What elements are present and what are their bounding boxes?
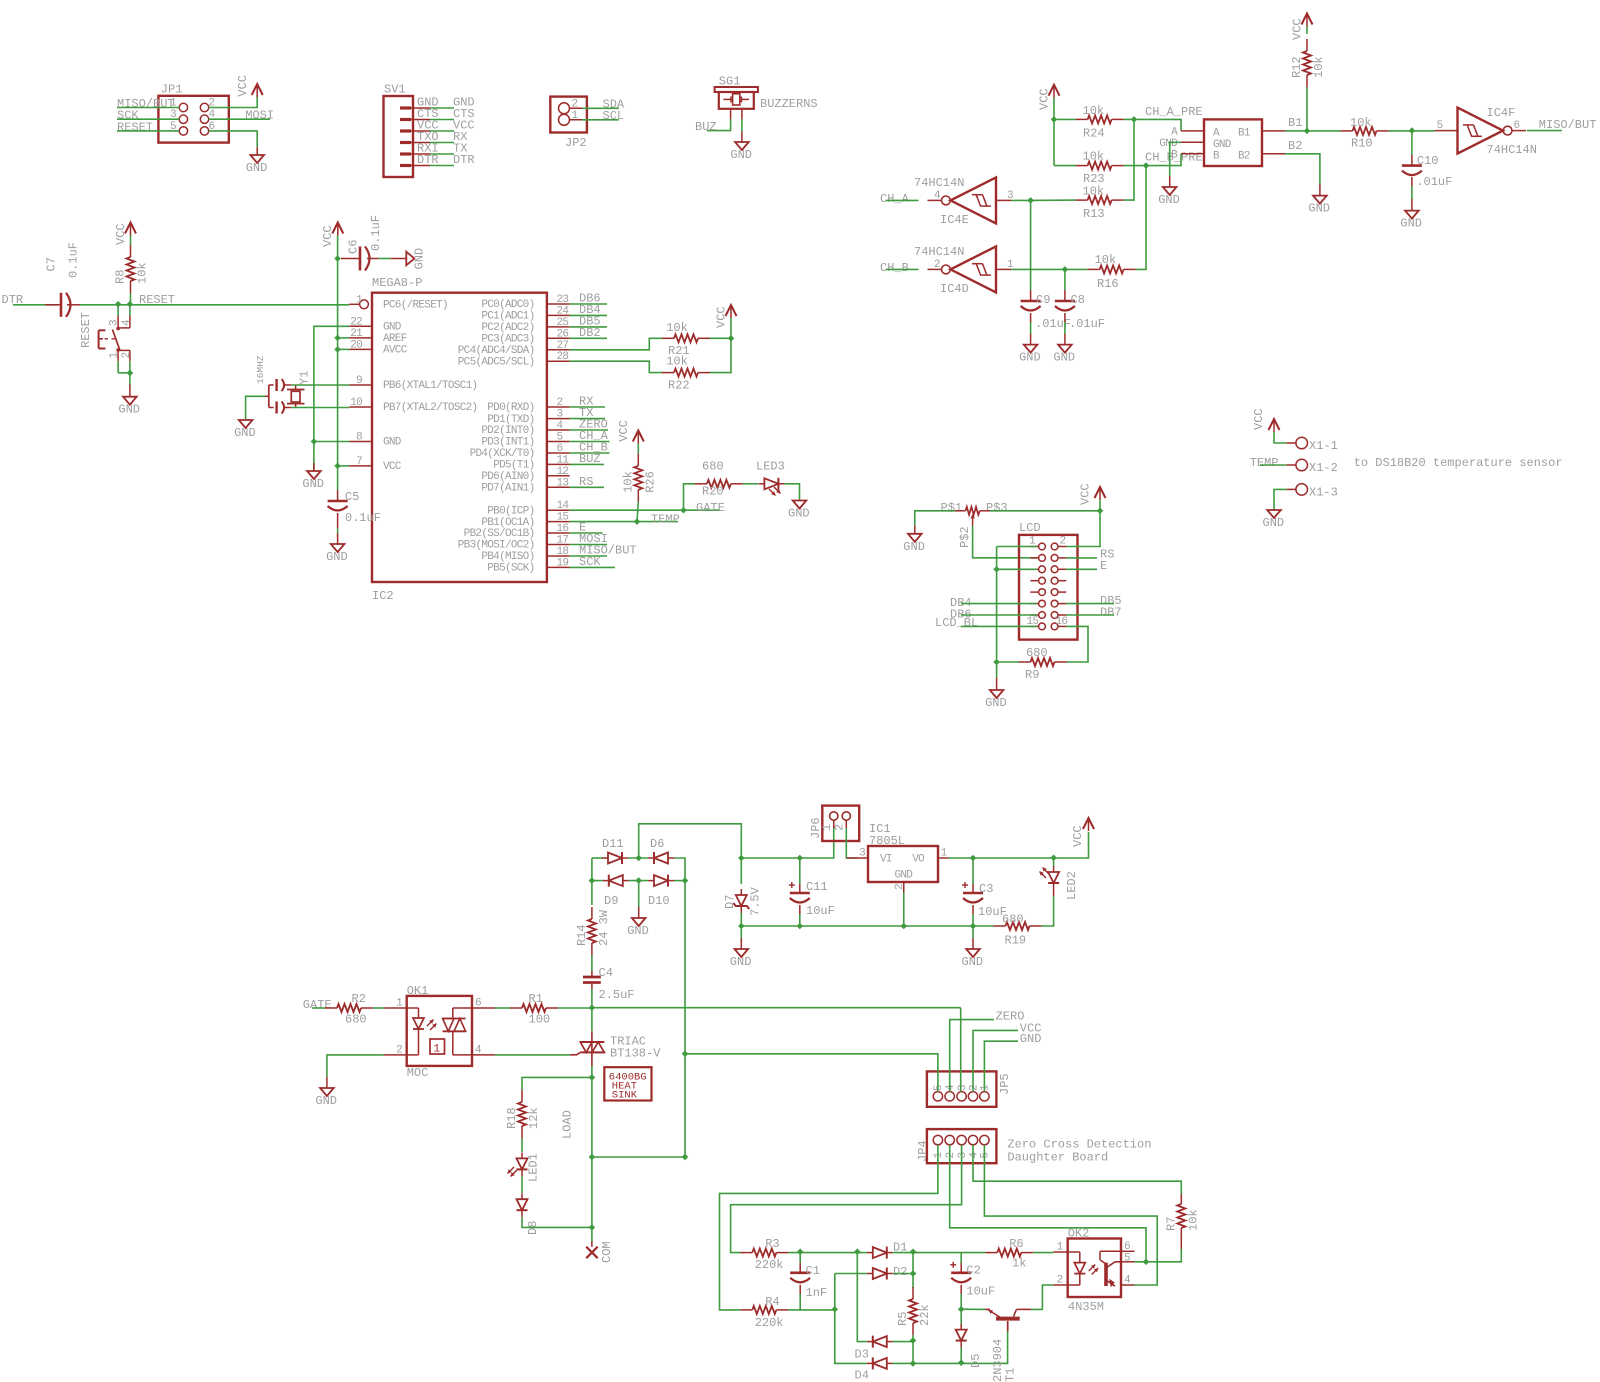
net label RX — [579, 395, 593, 409]
svg-text:2: 2 — [557, 397, 563, 409]
svg-text:PB6(XTAL1/TOSC1): PB6(XTAL1/TOSC1) — [383, 380, 477, 392]
connector pin X1-1 — [1287, 437, 1338, 453]
wire DB6 — [961, 614, 1037, 616]
net label E — [1100, 559, 1107, 573]
wire — [799, 914, 801, 926]
ground — [118, 397, 140, 417]
wire — [960, 1309, 962, 1323]
svg-text:5: 5 — [933, 1084, 945, 1091]
capacitor C5 — [328, 490, 381, 525]
wire — [1064, 322, 1066, 334]
wire — [337, 528, 339, 533]
svg-text:IC4F: IC4F — [1487, 106, 1516, 120]
svg-text:4N35M: 4N35M — [1068, 1300, 1104, 1314]
wire — [799, 1253, 801, 1263]
connector JP1 — [158, 83, 228, 143]
svg-text:R3: R3 — [765, 1237, 779, 1251]
svg-text:C9: C9 — [1036, 293, 1050, 307]
svg-text:24 3W: 24 3W — [597, 909, 611, 946]
wire TX — [430, 153, 454, 155]
lead — [246, 396, 269, 420]
wire DB2 — [570, 337, 607, 339]
net label TEMP — [1250, 456, 1279, 470]
wire — [1136, 166, 1146, 270]
wire — [784, 484, 799, 500]
svg-text:23: 23 — [557, 294, 569, 306]
junction — [311, 438, 318, 445]
ground — [315, 1088, 337, 1108]
lead — [129, 385, 131, 397]
wire VCC — [209, 97, 258, 108]
wire — [591, 955, 593, 971]
svg-text:DB7: DB7 — [1100, 606, 1122, 620]
svg-text:PC3(ADC3): PC3(ADC3) — [481, 334, 534, 346]
wire — [741, 119, 743, 131]
wire — [1411, 186, 1413, 199]
wire — [990, 510, 1100, 512]
svg-text:680: 680 — [1026, 646, 1048, 660]
junction — [993, 659, 1000, 666]
ground — [903, 534, 925, 554]
svg-text:C4: C4 — [599, 966, 613, 980]
wire SCK — [117, 118, 179, 120]
svg-text:10k: 10k — [621, 471, 635, 493]
wire — [1011, 199, 1031, 201]
lead — [972, 884, 974, 914]
net label DB4 — [579, 303, 601, 317]
wire CH_A — [570, 441, 610, 443]
svg-text:PB2(SS/OC1B): PB2(SS/OC1B) — [464, 528, 535, 540]
wire CH_A — [886, 199, 919, 201]
junction — [334, 335, 341, 342]
LED LED2 — [1040, 866, 1080, 900]
wire — [984, 1145, 1157, 1285]
svg-text:R10: R10 — [1351, 136, 1373, 150]
net label ZERO — [579, 418, 608, 432]
svg-text:P$3: P$3 — [986, 501, 1008, 515]
svg-text:GND: GND — [1020, 1032, 1042, 1046]
svg-text:220k: 220k — [755, 1258, 784, 1272]
wire DB4 — [570, 314, 607, 316]
svg-text:10k: 10k — [1095, 253, 1117, 267]
wire MOSI — [570, 544, 607, 546]
svg-text:PC5(ADC5/SCL): PC5(ADC5/SCL) — [458, 356, 535, 368]
svg-text:PC0(ADC0): PC0(ADC0) — [481, 299, 534, 311]
junction — [127, 301, 134, 308]
resistor R2 — [325, 992, 373, 1026]
wire — [972, 926, 974, 938]
wire — [834, 1274, 836, 1310]
IC2 pin names — [383, 299, 535, 574]
optocoupler OK1 — [384, 984, 495, 1080]
svg-text:25: 25 — [557, 317, 569, 329]
wire — [720, 1145, 938, 1310]
svg-text:TEMP: TEMP — [1250, 456, 1279, 470]
wire — [1146, 154, 1181, 166]
wire — [1042, 896, 1054, 926]
wire — [996, 662, 998, 678]
svg-text:2: 2 — [396, 1044, 402, 1056]
ground — [1308, 196, 1330, 216]
svg-text:LOAD: LOAD — [561, 1110, 575, 1139]
svg-text:1: 1 — [434, 1044, 441, 1056]
svg-text:R4: R4 — [765, 1295, 779, 1309]
wire VCC — [1099, 500, 1101, 511]
junction — [589, 1224, 596, 1231]
power VCC — [1291, 14, 1313, 41]
junction — [334, 346, 341, 353]
svg-text:MEGA8-P: MEGA8-P — [372, 276, 422, 290]
svg-text:R8: R8 — [114, 270, 128, 284]
ground — [962, 949, 984, 969]
wire GATE — [570, 509, 720, 511]
lead — [326, 1077, 328, 1088]
svg-text:220k: 220k — [755, 1316, 784, 1330]
net label E — [579, 521, 586, 535]
svg-text:0.1uF: 0.1uF — [67, 242, 81, 278]
junction — [832, 1306, 839, 1313]
lead — [341, 258, 378, 260]
wire RESET — [117, 130, 179, 132]
svg-text:X1-1: X1-1 — [1309, 439, 1338, 453]
ground — [1400, 211, 1422, 231]
svg-text:16: 16 — [1056, 616, 1068, 628]
encoder pin labels — [1159, 116, 1302, 161]
transistor T1 2N3904 — [985, 1309, 1031, 1382]
svg-text:74HC14N: 74HC14N — [1487, 143, 1537, 157]
svg-text:D3: D3 — [855, 1348, 869, 1362]
svg-text:R7: R7 — [1164, 1217, 1178, 1231]
svg-text:C1: C1 — [806, 1264, 820, 1278]
svg-text:13: 13 — [557, 477, 569, 489]
capacitor C7 — [45, 242, 81, 317]
wire — [799, 1294, 801, 1310]
lead — [799, 500, 801, 501]
svg-text:PC1(ADC1): PC1(ADC1) — [481, 311, 534, 323]
note text — [1354, 456, 1563, 470]
wire E — [570, 532, 603, 534]
ground — [1053, 345, 1075, 365]
wire DTR — [13, 304, 58, 306]
svg-text:GND: GND — [895, 870, 914, 882]
svg-text:B1: B1 — [1288, 116, 1302, 130]
svg-text:1nF: 1nF — [806, 1286, 828, 1300]
junction — [797, 1249, 804, 1256]
svg-text:R1: R1 — [529, 992, 543, 1006]
svg-text:GND: GND — [1213, 139, 1232, 151]
lead — [1180, 1238, 1182, 1249]
ground — [1158, 187, 1180, 207]
resistor R3 — [740, 1237, 788, 1272]
wire MOSI — [209, 118, 270, 120]
net label RX — [453, 130, 467, 144]
wire B2 — [1286, 154, 1320, 184]
wire — [1033, 1252, 1053, 1254]
junction — [1131, 116, 1138, 123]
svg-text:11: 11 — [557, 454, 570, 466]
svg-text:12: 12 — [557, 466, 569, 478]
junction — [635, 877, 642, 884]
resistor R5 — [896, 1287, 932, 1335]
junction — [1409, 127, 1416, 134]
wire VCC — [337, 236, 339, 466]
wire — [591, 1227, 593, 1241]
switch S1 — [79, 305, 133, 373]
svg-text:10k: 10k — [1312, 56, 1326, 78]
net label VCC — [453, 119, 475, 133]
wire — [740, 858, 742, 884]
svg-text:D4: D4 — [855, 1369, 869, 1382]
junction — [1062, 266, 1069, 273]
net label LCD_BL — [935, 616, 978, 630]
resistor R14 — [575, 907, 611, 955]
power VCC — [1079, 483, 1106, 505]
connector JP5 — [927, 1071, 1012, 1106]
junction — [910, 1337, 917, 1344]
wire CH_B_PRE — [1124, 165, 1146, 167]
net label RS — [1100, 548, 1114, 562]
wire — [130, 236, 132, 246]
wire — [591, 858, 593, 881]
resistor R9 — [1019, 646, 1067, 682]
wire P$2 — [973, 526, 1037, 558]
svg-text:OK1: OK1 — [407, 984, 429, 998]
wire — [1306, 87, 1308, 131]
wire — [857, 1252, 867, 1254]
svg-text:0.1uF: 0.1uF — [369, 215, 383, 251]
wire — [912, 1342, 914, 1364]
JP5 pin numbers — [933, 1084, 992, 1091]
wire — [710, 337, 731, 339]
wire GND — [314, 326, 349, 441]
lead — [337, 490, 339, 528]
wire VCC — [637, 444, 639, 454]
wire — [522, 1217, 592, 1227]
svg-text:4: 4 — [945, 1084, 957, 1091]
svg-text:COM: COM — [600, 1241, 614, 1263]
wire — [1064, 269, 1066, 290]
trimpot contrast — [941, 501, 1008, 548]
wire AVCC — [338, 348, 350, 350]
svg-text:PD5(T1): PD5(T1) — [493, 460, 534, 472]
svg-text:GND: GND — [627, 924, 649, 938]
wire TX — [570, 418, 605, 420]
svg-text:JP2: JP2 — [565, 136, 587, 150]
resistor R4 — [740, 1295, 788, 1330]
net label DB6 — [950, 608, 972, 622]
diode D5 — [956, 1324, 983, 1368]
heat sink note — [604, 1067, 651, 1101]
resistor R20 — [695, 460, 743, 499]
net label CH_A — [579, 429, 609, 443]
svg-text:10k: 10k — [136, 262, 150, 284]
ground — [406, 248, 426, 270]
svg-text:1: 1 — [933, 1152, 945, 1159]
diode D7 — [723, 886, 763, 916]
junction — [993, 566, 1000, 573]
svg-text:6: 6 — [1124, 1241, 1130, 1253]
resistor R21 — [662, 321, 710, 358]
svg-text:GND: GND — [302, 477, 324, 491]
wire SDA — [570, 338, 663, 350]
wire CTS — [430, 119, 454, 121]
svg-text:R2: R2 — [352, 992, 366, 1006]
power VCC — [114, 223, 136, 246]
wire — [997, 546, 1037, 548]
svg-text:PD3(INT1): PD3(INT1) — [481, 437, 534, 449]
svg-text:680: 680 — [1002, 913, 1024, 927]
wire — [731, 1145, 962, 1253]
svg-text:8: 8 — [356, 432, 362, 444]
junction — [1143, 162, 1150, 169]
svg-text:PD2(INT0): PD2(INT0) — [481, 425, 534, 437]
net label RESET — [139, 293, 175, 307]
svg-text:GND: GND — [730, 955, 752, 969]
wire — [337, 466, 339, 490]
svg-text:GND: GND — [383, 322, 402, 334]
net label MISO/BUT — [117, 97, 175, 111]
wire — [1054, 165, 1076, 167]
wire — [835, 1310, 867, 1364]
JP1 pin numbers — [170, 98, 216, 133]
wire SCL — [570, 361, 663, 372]
wire — [1180, 1192, 1182, 1194]
connector LCD — [1019, 521, 1078, 640]
svg-text:PC2(ADC2): PC2(ADC2) — [481, 322, 534, 334]
net label SDA — [603, 98, 625, 112]
net label DB2 — [579, 326, 601, 340]
connector JP6 — [809, 806, 859, 841]
wire — [628, 857, 648, 859]
svg-text:A: A — [1171, 126, 1178, 138]
svg-text:R5: R5 — [896, 1312, 910, 1326]
svg-text:3: 3 — [957, 1084, 969, 1091]
lead — [256, 147, 258, 155]
svg-text:to DS18B20 temperature sensor: to DS18B20 temperature sensor — [1354, 456, 1563, 470]
power VCC — [715, 305, 737, 328]
resistor R16 — [1088, 253, 1136, 291]
wire — [799, 858, 801, 884]
svg-text:10k: 10k — [1083, 184, 1105, 198]
net label DTR — [2, 293, 24, 307]
junction — [115, 301, 122, 308]
lead — [1169, 176, 1171, 187]
wire CH_B — [886, 268, 919, 270]
lead — [960, 1263, 962, 1294]
svg-text:2: 2 — [945, 1152, 957, 1159]
power VCC — [236, 75, 263, 97]
ground — [730, 949, 752, 969]
svg-text:VO: VO — [912, 854, 925, 866]
wire — [378, 258, 390, 260]
wire — [639, 824, 742, 858]
SV1 pin names — [417, 96, 439, 168]
wire — [972, 914, 974, 926]
junction — [1051, 116, 1058, 123]
wire — [1031, 1285, 1053, 1309]
resistor R26 — [621, 454, 657, 502]
svg-text:GND: GND — [788, 507, 810, 521]
wire RS — [570, 486, 604, 488]
svg-text:LED3: LED3 — [756, 460, 785, 474]
ground — [985, 690, 1007, 710]
wire TEMP — [570, 521, 678, 523]
IC U IC2 MEGA8-P — [349, 276, 569, 603]
svg-text:SCK: SCK — [579, 555, 601, 569]
svg-text:15: 15 — [557, 512, 569, 524]
inverter IC4F 74HC14 — [1435, 106, 1537, 157]
lead — [1411, 154, 1413, 186]
lead — [980, 510, 990, 512]
wire — [741, 857, 800, 859]
svg-text:BUZZERNS: BUZZERNS — [760, 97, 818, 111]
JP4 pin numbers — [933, 1152, 992, 1159]
net label GND — [453, 96, 475, 110]
junction — [1097, 508, 1104, 515]
svg-text:X1-2: X1-2 — [1309, 461, 1338, 475]
lead — [1053, 890, 1055, 896]
wire GND — [314, 442, 349, 471]
lead — [741, 131, 743, 142]
capacitor C3 — [962, 882, 1007, 919]
svg-text:7805L: 7805L — [869, 834, 905, 848]
net label SCK — [579, 555, 601, 569]
wire BUZ — [570, 463, 604, 465]
svg-text:VCC: VCC — [321, 225, 335, 247]
wire MISO/BUT — [1527, 130, 1562, 132]
net label MISO/BUT — [1539, 118, 1597, 132]
junction — [958, 1359, 965, 1366]
wire RX — [430, 142, 454, 144]
svg-text:GND: GND — [118, 403, 140, 417]
svg-text:Daughter Board: Daughter Board — [1007, 1151, 1108, 1165]
svg-text:VCC: VCC — [1291, 18, 1305, 40]
wire — [327, 1055, 384, 1077]
wire — [997, 568, 1037, 570]
net label DB7 — [1100, 606, 1122, 620]
junction — [334, 255, 341, 262]
junction — [970, 923, 977, 930]
wire — [522, 1077, 592, 1090]
wire GATE — [312, 1007, 325, 1009]
svg-text:P$2: P$2 — [958, 526, 972, 548]
wire — [893, 1252, 961, 1254]
svg-text:10k: 10k — [666, 321, 688, 335]
svg-text:LCD: LCD — [1019, 521, 1041, 535]
wire — [912, 1252, 914, 1288]
wire RESET — [80, 304, 349, 306]
wire — [591, 1008, 593, 1031]
svg-text:C2: C2 — [966, 1264, 980, 1278]
wire MISO/BUT — [570, 555, 607, 557]
wire XTAL2 — [291, 407, 349, 409]
wire — [1031, 199, 1076, 201]
net label MISO/BUT — [579, 544, 637, 558]
junction — [970, 855, 977, 862]
svg-text:2: 2 — [968, 1084, 980, 1091]
wire VCC — [1053, 98, 1055, 166]
diode D11 — [602, 837, 628, 864]
wire MISO/BUT — [117, 107, 179, 109]
resistor R18 — [505, 1090, 541, 1138]
ground — [1263, 510, 1285, 530]
net label DB4 — [950, 596, 972, 610]
lead — [1030, 290, 1032, 322]
svg-text:PD0(RXD): PD0(RXD) — [487, 402, 534, 414]
junction — [589, 877, 596, 884]
resistor R8 — [114, 245, 150, 293]
wire GND — [209, 131, 258, 147]
